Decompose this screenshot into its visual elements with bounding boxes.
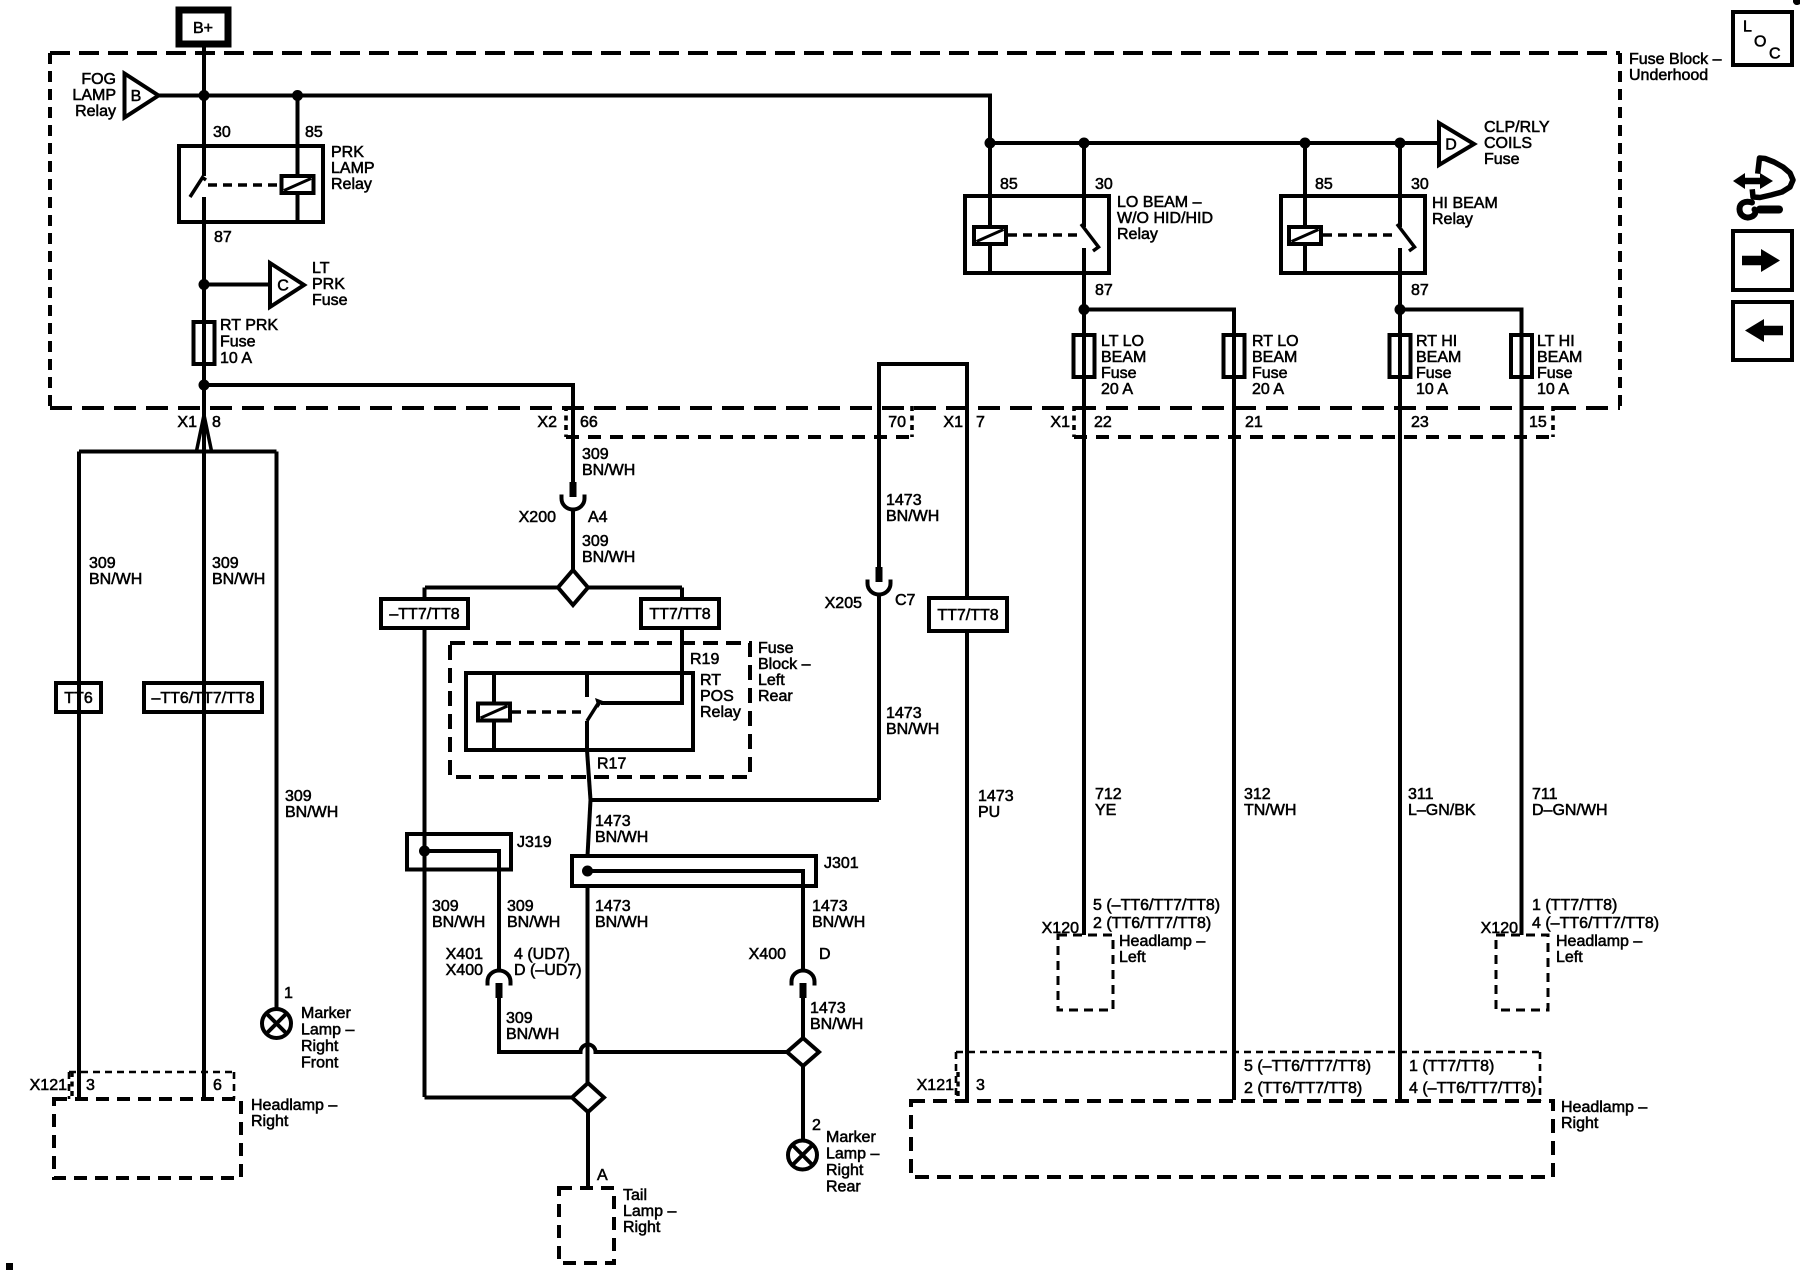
- fuse block left rear dashed box: [450, 640, 811, 777]
- page artifact bottom-left: [6, 1263, 13, 1270]
- wire LO 87 down and jumper to RT LO fuse: [1084, 273, 1234, 335]
- wire 311 L-GN/BK down: [1398, 377, 1402, 1100]
- svg-text:Right: Right: [623, 1219, 661, 1236]
- pin 30 lead: [1398, 143, 1402, 227]
- X2 pin 66 labels: [537, 414, 597, 431]
- relay R19 RT POS: [466, 628, 693, 750]
- node junction at B+ bus: [199, 90, 210, 101]
- svg-text:BN/WH: BN/WH: [582, 462, 635, 479]
- common lead: [1398, 248, 1402, 273]
- net label box TT6: [56, 683, 101, 712]
- svg-text:23: 23: [1411, 414, 1429, 431]
- connector X120 right labels: [1481, 897, 1660, 937]
- wire 309 BN/WH label right leg: [507, 898, 560, 931]
- wire X400 down to marker splice: [801, 998, 805, 1038]
- svg-text:LT HI: LT HI: [1537, 333, 1575, 350]
- wire 312 TN/WH down: [1232, 377, 1236, 1100]
- wire left leg into tail splice: [425, 1096, 573, 1100]
- svg-text:309: 309: [432, 898, 459, 915]
- svg-text:BN/WH: BN/WH: [507, 914, 560, 931]
- svg-text:–TT7/TT8: –TT7/TT8: [389, 606, 459, 623]
- svg-text:TT6: TT6: [64, 690, 93, 707]
- node HI 87 junction: [1395, 304, 1406, 315]
- fuse RT LO BEAM 20A: [1224, 333, 1299, 398]
- svg-text:LAMP: LAMP: [72, 87, 116, 104]
- fuse LT LO BEAM 20A: [1074, 333, 1147, 398]
- svg-text:Right: Right: [826, 1162, 864, 1179]
- node LO 87 junction: [1079, 304, 1090, 315]
- svg-text:85: 85: [305, 124, 323, 141]
- inline connector X400 D: [749, 946, 831, 998]
- svg-text:3: 3: [86, 1077, 95, 1094]
- net label box -TT7/TT8: [381, 599, 468, 628]
- wire X401 down and across to rear splice: [499, 998, 787, 1052]
- fuse RT HI BEAM 10A: [1390, 333, 1462, 398]
- locator icon LOC: [1733, 12, 1792, 65]
- wire left column TT6 branch: [77, 452, 81, 1100]
- coil-to-armature dashed link: [208, 183, 279, 187]
- svg-text:6: 6: [213, 1077, 222, 1094]
- switch blade: [1081, 224, 1099, 251]
- headlamp right rear connector pin labels: [1244, 1058, 1536, 1097]
- svg-text:BN/WH: BN/WH: [212, 571, 265, 588]
- svg-text:Fuse: Fuse: [758, 640, 794, 657]
- svg-text:21: 21: [1245, 414, 1263, 431]
- wire PRK 87 down: [202, 222, 206, 322]
- svg-text:Rear: Rear: [758, 688, 793, 705]
- wire to marker lamp right rear: [801, 1066, 805, 1139]
- svg-text:Lamp –: Lamp –: [301, 1022, 354, 1039]
- svg-text:W/O HID/HID: W/O HID/HID: [1117, 210, 1213, 227]
- coil: [974, 227, 1006, 244]
- svg-text:PRK: PRK: [312, 276, 345, 293]
- svg-text:BEAM: BEAM: [1537, 349, 1582, 366]
- svg-text:309: 309: [582, 446, 609, 463]
- relay HI BEAM: [1281, 143, 1498, 299]
- svg-text:D: D: [1445, 137, 1457, 154]
- switch blade: [190, 178, 206, 198]
- net label box TT7/TT8: [641, 599, 719, 628]
- svg-text:BN/WH: BN/WH: [886, 721, 939, 738]
- wire right column to front marker lamp: [275, 452, 279, 1010]
- svg-text:TT7/TT8: TT7/TT8: [937, 607, 998, 624]
- svg-text:Lamp –: Lamp –: [623, 1203, 676, 1220]
- svg-text:Block –: Block –: [758, 656, 811, 673]
- wire branch to X2-66: [204, 385, 573, 483]
- svg-text:Fuse: Fuse: [1537, 365, 1573, 382]
- wire 309 BN/WH label below X401: [506, 1010, 559, 1043]
- svg-text:X121: X121: [30, 1077, 67, 1094]
- svg-text:X401: X401: [446, 946, 483, 963]
- connector X121 left row: [30, 1072, 234, 1099]
- svg-text:X400: X400: [446, 962, 483, 979]
- svg-text:7: 7: [976, 414, 985, 431]
- svg-text:309: 309: [285, 788, 312, 805]
- inline connector X200 A4: [519, 482, 608, 526]
- wire J319 to X401: [497, 870, 501, 971]
- svg-text:Relay: Relay: [331, 176, 372, 193]
- headlamp right dashed box: [911, 1099, 1647, 1177]
- X1 pin 8 labels: [177, 414, 221, 431]
- svg-text:HI BEAM: HI BEAM: [1432, 195, 1498, 212]
- svg-text:O: O: [1754, 34, 1766, 51]
- fixed contact stub: [585, 673, 589, 697]
- marker lamp right front: [262, 985, 354, 1072]
- nav arrow left box: [1733, 302, 1792, 360]
- junction box J301: [572, 855, 859, 886]
- svg-text:Fuse: Fuse: [1484, 151, 1520, 168]
- LT PRK fuse triangle C: [270, 260, 348, 309]
- svg-text:BN/WH: BN/WH: [886, 508, 939, 525]
- svg-text:10 A: 10 A: [220, 350, 252, 367]
- wire 1473 BN/WH label above X205: [886, 492, 939, 525]
- B+ terminal: [179, 10, 228, 44]
- inline connector X401 X400: [446, 946, 582, 998]
- wire 712 YE down to headlamp left: [1082, 377, 1086, 935]
- svg-text:FOG: FOG: [81, 71, 116, 88]
- svg-text:4 (–TT6/TT7/TT8): 4 (–TT6/TT7/TT8): [1409, 1080, 1536, 1097]
- wire J301 right leg down: [801, 886, 805, 970]
- fuse block underhood dashed border: [50, 51, 1722, 408]
- connector row secondary dashed lines: [566, 406, 1553, 437]
- svg-text:70: 70: [888, 414, 906, 431]
- svg-text:Left: Left: [1119, 949, 1146, 966]
- svg-text:LT: LT: [312, 260, 330, 277]
- svg-text:RT HI: RT HI: [1416, 333, 1457, 350]
- svg-text:2 (TT6/TT7/TT8): 2 (TT6/TT7/TT8): [1093, 915, 1211, 932]
- svg-text:15: 15: [1529, 414, 1547, 431]
- svg-text:LT LO: LT LO: [1101, 333, 1144, 350]
- svg-text:Relay: Relay: [1117, 226, 1158, 243]
- svg-text:22: 22: [1094, 414, 1112, 431]
- svg-text:10 A: 10 A: [1416, 381, 1448, 398]
- wire HI 87 down and jumper to LT HI fuse: [1400, 273, 1522, 335]
- svg-text:712: 712: [1095, 786, 1122, 803]
- svg-text:BN/WH: BN/WH: [595, 914, 648, 931]
- tail lamp right dashed box: [559, 1187, 676, 1263]
- svg-text:J301: J301: [824, 855, 859, 872]
- svg-text:Rear: Rear: [826, 1179, 861, 1196]
- svg-text:309: 309: [507, 898, 534, 915]
- svg-text:LAMP: LAMP: [331, 160, 375, 177]
- splice diamond S309: [425, 570, 682, 605]
- net label box TT7/TT8 right: [929, 598, 1007, 631]
- svg-text:Fuse: Fuse: [1101, 365, 1137, 382]
- svg-text:8: 8: [212, 414, 221, 431]
- wire R17 junction to X205 branch: [590, 798, 879, 802]
- svg-text:L–GN/BK: L–GN/BK: [1408, 802, 1476, 819]
- svg-text:30: 30: [1411, 176, 1429, 193]
- svg-text:Fuse: Fuse: [1252, 365, 1288, 382]
- svg-text:2: 2: [812, 1117, 821, 1134]
- svg-text:20 A: 20 A: [1101, 381, 1133, 398]
- svg-text:309: 309: [89, 555, 116, 572]
- splice diamond rear marker: [787, 1038, 819, 1066]
- coil: [1289, 227, 1321, 244]
- wire 309 BN/WH label under X2-66: [582, 446, 635, 479]
- svg-text:RT LO: RT LO: [1252, 333, 1299, 350]
- svg-text:Relay: Relay: [700, 704, 741, 721]
- wire top bus from B to LO BEAM area: [159, 96, 1440, 144]
- common lead: [202, 197, 206, 222]
- svg-text:LO BEAM –: LO BEAM –: [1117, 194, 1202, 211]
- svg-text:Left: Left: [1556, 949, 1583, 966]
- wire X1-7 1473 PU down: [965, 631, 969, 1100]
- wire -TT7/TT8 through J319 down: [423, 628, 427, 1097]
- svg-text:BEAM: BEAM: [1252, 349, 1297, 366]
- pin 30 lead: [1082, 143, 1086, 227]
- wire 311 L-GN/BK label: [1408, 786, 1476, 819]
- nav arrow right box: [1733, 231, 1792, 290]
- svg-text:Fuse: Fuse: [1416, 365, 1452, 382]
- wire 1473 BN/WH label right leg: [812, 898, 865, 931]
- svg-text:D: D: [819, 946, 831, 963]
- wire 1473 PU label: [978, 788, 1014, 821]
- svg-text:87: 87: [214, 229, 232, 246]
- coil-to-armature dashed link: [1323, 233, 1394, 237]
- wire right branch down to TT7/TT8: [680, 588, 684, 600]
- svg-text:309: 309: [506, 1010, 533, 1027]
- svg-text:5 (–TT6/TT7/TT8): 5 (–TT6/TT7/TT8): [1093, 897, 1220, 914]
- wire 1473 BN/WH label below X400: [810, 1000, 863, 1033]
- svg-text:C: C: [277, 278, 289, 295]
- svg-text:CLP/RLY: CLP/RLY: [1484, 119, 1550, 136]
- contact feed from TT7/TT8: [601, 628, 682, 703]
- svg-text:Relay: Relay: [1432, 211, 1473, 228]
- svg-text:1 (TT7/TT8): 1 (TT7/TT8): [1409, 1058, 1494, 1075]
- svg-text:PU: PU: [978, 804, 1000, 821]
- wire 711 D-GN/WH down to headlamp left: [1520, 377, 1524, 935]
- svg-text:RT: RT: [700, 672, 721, 689]
- wire X200 to splice: [571, 509, 575, 571]
- svg-text:Fuse Block –: Fuse Block –: [1629, 51, 1722, 68]
- coil pin 85 lead: [988, 143, 992, 273]
- svg-text:Front: Front: [301, 1055, 339, 1072]
- wire 312 TN/WH label: [1244, 786, 1296, 819]
- connector X121 right row: [917, 1052, 1540, 1101]
- wire 309 BN/WH label under X200: [582, 533, 635, 566]
- headlamp left dashed box A: [1058, 933, 1205, 1010]
- svg-text:10 A: 10 A: [1537, 381, 1569, 398]
- svg-text:2 (TT6/TT7/TT8): 2 (TT6/TT7/TT8): [1244, 1080, 1362, 1097]
- svg-text:Tail: Tail: [623, 1187, 647, 1204]
- fuse LT HI BEAM 10A: [1511, 333, 1582, 398]
- svg-text:Lamp –: Lamp –: [826, 1146, 879, 1163]
- coil pin 85 lead: [1303, 143, 1307, 273]
- svg-text:D (–UD7): D (–UD7): [514, 962, 582, 979]
- connector X120 left labels: [1042, 897, 1221, 937]
- svg-text:1 (TT7/TT8): 1 (TT7/TT8): [1532, 897, 1617, 914]
- fuse RT PRK 10A: [194, 317, 279, 367]
- svg-text:BEAM: BEAM: [1416, 349, 1461, 366]
- svg-text:BEAM: BEAM: [1101, 349, 1146, 366]
- svg-text:X1: X1: [177, 414, 197, 431]
- svg-text:1473: 1473: [812, 898, 848, 915]
- svg-text:4 (–TT6/TT7/TT8): 4 (–TT6/TT7/TT8): [1532, 915, 1659, 932]
- svg-text:87: 87: [1095, 282, 1113, 299]
- svg-text:TN/WH: TN/WH: [1244, 802, 1296, 819]
- wire 1473 BN/WH down to J301: [588, 800, 591, 856]
- X1 pin 22 labels: [1050, 414, 1111, 431]
- wire tap to C triangle: [204, 283, 270, 287]
- common lead: [1082, 248, 1086, 273]
- svg-text:Right: Right: [301, 1038, 339, 1055]
- svg-text:POS: POS: [700, 688, 734, 705]
- svg-text:Marker: Marker: [826, 1129, 876, 1146]
- svg-text:C: C: [1769, 46, 1781, 63]
- svg-text:YE: YE: [1095, 802, 1116, 819]
- svg-text:311: 311: [1408, 786, 1434, 803]
- svg-text:3: 3: [976, 1077, 985, 1094]
- wire left branch down to -TT7/TT8: [423, 588, 427, 600]
- svg-text:BN/WH: BN/WH: [506, 1026, 559, 1043]
- wire 1473 BN/WH label above J301: [595, 813, 648, 846]
- svg-text:4 (UD7): 4 (UD7): [514, 946, 570, 963]
- CLP/RLY COILS fuse triangle D: [1439, 119, 1550, 168]
- svg-text:Headlamp –: Headlamp –: [1119, 933, 1205, 950]
- svg-text:20 A: 20 A: [1252, 381, 1284, 398]
- svg-text:1473: 1473: [595, 898, 631, 915]
- svg-text:1473: 1473: [810, 1000, 846, 1017]
- splice diamond tail lamp: [572, 1083, 604, 1112]
- svg-text:87: 87: [1411, 282, 1429, 299]
- svg-text:BN/WH: BN/WH: [432, 914, 485, 931]
- svg-text:Right: Right: [251, 1113, 289, 1130]
- common lead: [585, 721, 589, 750]
- svg-text:Underhood: Underhood: [1629, 67, 1708, 84]
- wire 712 YE label: [1095, 786, 1122, 819]
- svg-text:Left: Left: [758, 672, 785, 689]
- coil-to-armature dashed link: [512, 710, 584, 714]
- wire 1473 BN/WH label below X205: [886, 705, 939, 738]
- svg-text:85: 85: [1000, 176, 1018, 193]
- wire PRK coil pin 85: [296, 96, 300, 223]
- svg-text:BN/WH: BN/WH: [810, 1016, 863, 1033]
- relay LO BEAM W/O HID/HID: [965, 143, 1213, 299]
- svg-text:711: 711: [1532, 786, 1558, 803]
- wire 87 output to X1-8: [202, 364, 206, 451]
- net label box -TT6/TT7/TT8: [144, 683, 262, 712]
- svg-text:309: 309: [582, 533, 609, 550]
- svg-text:Right: Right: [1561, 1115, 1599, 1132]
- node dots on feed bus: [292, 90, 303, 101]
- svg-text:309: 309: [212, 555, 239, 572]
- svg-text:X200: X200: [519, 509, 556, 526]
- svg-text:30: 30: [1095, 176, 1113, 193]
- wire center column -TT6/TT7/TT8 branch: [202, 452, 206, 1100]
- svg-text:Headlamp –: Headlamp –: [1561, 1099, 1647, 1116]
- page artifact top-right: [1793, 0, 1800, 5]
- wire R17 output: [587, 750, 626, 800]
- svg-text:X400: X400: [749, 946, 786, 963]
- svg-text:BN/WH: BN/WH: [582, 549, 635, 566]
- wire 309 BN/WH label col3: [285, 788, 338, 821]
- svg-text:L: L: [1743, 19, 1752, 36]
- svg-text:B+: B+: [193, 20, 213, 37]
- wire 1473 BN/WH label below J301: [595, 898, 648, 931]
- svg-text:Headlamp –: Headlamp –: [1556, 933, 1642, 950]
- svg-text:1473: 1473: [595, 813, 631, 830]
- junction box J319: [407, 834, 552, 870]
- headlamp right front dashed box: [54, 1097, 337, 1178]
- svg-text:1473: 1473: [886, 705, 922, 722]
- svg-text:D–GN/WH: D–GN/WH: [1532, 802, 1608, 819]
- svg-text:66: 66: [580, 414, 598, 431]
- wire 309 BN/WH label left leg: [432, 898, 485, 931]
- switch blade: [587, 702, 599, 721]
- svg-text:5 (–TT6/TT7/TT8): 5 (–TT6/TT7/TT8): [1244, 1058, 1371, 1075]
- svg-text:X1: X1: [943, 414, 963, 431]
- splice fan-out under X1-8: [79, 415, 277, 452]
- svg-text:–TT6/TT7/TT8: –TT6/TT7/TT8: [151, 690, 254, 707]
- node LT PRK tap: [199, 279, 210, 290]
- svg-text:BN/WH: BN/WH: [89, 571, 142, 588]
- coil pin lead: [492, 673, 496, 750]
- inline connector X205 C7: [825, 567, 916, 612]
- svg-text:J319: J319: [517, 834, 552, 851]
- pin 30 lead: [202, 146, 206, 176]
- svg-text:PRK: PRK: [331, 144, 364, 161]
- wire 309 BN/WH label col2: [212, 555, 265, 588]
- svg-text:A: A: [597, 1167, 608, 1184]
- wire tail splice down to tail lamp: [586, 1112, 590, 1188]
- svg-text:Fuse: Fuse: [220, 334, 256, 351]
- svg-text:Headlamp –: Headlamp –: [251, 1097, 337, 1114]
- svg-text:1473: 1473: [886, 492, 922, 509]
- svg-text:RT PRK: RT PRK: [220, 317, 278, 334]
- svg-text:TT7/TT8: TT7/TT8: [649, 606, 710, 623]
- svg-text:BN/WH: BN/WH: [812, 914, 865, 931]
- fog lamp relay feed triangle B: [72, 71, 158, 120]
- coil: [282, 176, 314, 193]
- svg-text:B: B: [131, 88, 142, 105]
- harness routing icon: [1733, 158, 1793, 218]
- marker lamp right rear: [788, 1117, 879, 1196]
- relay PRK LAMP: [179, 124, 375, 246]
- svg-text:C7: C7: [895, 592, 916, 609]
- svg-text:BN/WH: BN/WH: [595, 829, 648, 846]
- coil: [478, 704, 510, 721]
- svg-text:30: 30: [213, 124, 231, 141]
- svg-text:X121: X121: [917, 1077, 954, 1094]
- wire J301 down to tail lamp splice: [586, 886, 590, 1083]
- switch blade: [1397, 224, 1415, 251]
- svg-text:R17: R17: [597, 756, 626, 773]
- wire 711 D-GN/WH label: [1532, 786, 1608, 819]
- wire B+ down to relay: [202, 47, 206, 146]
- svg-text:Relay: Relay: [75, 103, 116, 120]
- svg-text:1: 1: [284, 985, 293, 1002]
- headlamp left dashed box B: [1496, 933, 1642, 1010]
- svg-text:X2: X2: [537, 414, 557, 431]
- svg-text:312: 312: [1244, 786, 1271, 803]
- coil-to-armature dashed link: [1008, 233, 1078, 237]
- internal jumper 70 to X1-7: [879, 364, 967, 598]
- svg-text:BN/WH: BN/WH: [285, 804, 338, 821]
- node output junction: [199, 380, 210, 391]
- svg-text:Fuse: Fuse: [312, 292, 348, 309]
- svg-text:X1: X1: [1050, 414, 1070, 431]
- svg-text:Marker: Marker: [301, 1005, 351, 1022]
- svg-text:X205: X205: [825, 595, 862, 612]
- svg-text:A4: A4: [588, 509, 608, 526]
- svg-text:R19: R19: [690, 651, 719, 668]
- svg-text:1473: 1473: [978, 788, 1014, 805]
- svg-text:COILS: COILS: [1484, 135, 1532, 152]
- X1 pin 7 labels: [943, 414, 985, 431]
- svg-text:85: 85: [1315, 176, 1333, 193]
- wire 309 BN/WH label col1: [89, 555, 142, 588]
